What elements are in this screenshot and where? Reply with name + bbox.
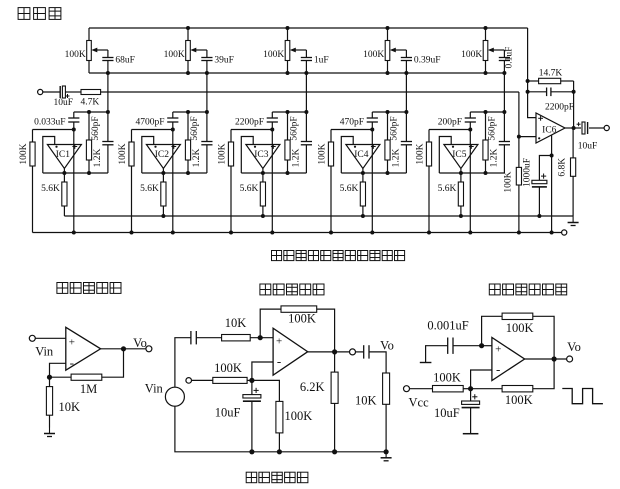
Vin terminal DC amp [29, 335, 35, 341]
svg-text:560pF: 560pF [488, 116, 498, 140]
wire 560pF top stage 2 [206, 112, 208, 142]
wire 0.001uF left [426, 346, 448, 363]
resistor 1.2K stage 2 [185, 140, 190, 160]
wire term to 100K [192, 379, 213, 381]
svg-text:100K: 100K [118, 143, 128, 164]
svg-text:560pF: 560pF [290, 116, 300, 140]
junction dot [286, 171, 290, 175]
svg-text:2200pF: 2200pF [545, 103, 574, 113]
wire stage top node stage 4 [372, 111, 406, 113]
op-amp IC3 [246, 145, 280, 169]
capacitor 560pF stage 5 [499, 142, 510, 145]
junction dot [459, 214, 463, 218]
capacitor 10uF sq gen [462, 394, 480, 407]
junction dot [517, 231, 521, 235]
capacitor 10uF mid [243, 388, 261, 401]
junction dot [270, 231, 274, 235]
svg-text:10uF: 10uF [578, 142, 598, 152]
wire wiper stage 3 [305, 50, 307, 58]
junction dot [270, 128, 274, 132]
wire 560pF bottom stage 1 [107, 145, 109, 173]
junction dot [106, 110, 110, 114]
junction dot [329, 231, 333, 235]
wire feedback2 right [533, 359, 554, 389]
output terminal inv amp [350, 349, 356, 355]
wire 100K to node [247, 379, 252, 381]
wire output node IC3 [241, 172, 306, 174]
capacitor 10uF output [577, 122, 588, 134]
wire node to 100K vert [252, 380, 280, 401]
wire 1.2K bottom stage 4 [387, 160, 389, 173]
junction dot [62, 171, 66, 175]
junction dot [249, 378, 254, 383]
potentiometer 100K stage 4 [385, 28, 390, 73]
junction dot [459, 171, 463, 175]
wire noninverting input / supply line stage 4 [371, 122, 373, 233]
svg-text:560pF: 560pF [91, 116, 101, 140]
Vo terminal DC amp [146, 346, 152, 352]
wiper arrow stage 1 [91, 48, 108, 53]
svg-text:100K: 100K [19, 143, 29, 164]
svg-text:100K: 100K [504, 171, 514, 192]
wire 1M to output [102, 349, 124, 377]
junction dot [484, 110, 488, 114]
wire to output terminal [589, 127, 604, 129]
wire op-amp output IC3 [262, 169, 264, 174]
resistor 5.6K stage 4 [360, 182, 365, 206]
resistor 5.6K stage 2 [161, 182, 166, 206]
ground inv amp [381, 452, 392, 461]
junction dot [484, 171, 488, 175]
stage 1 of tone control [0, 0, 1, 1]
wire output node IC2 [142, 172, 207, 174]
resistor 100K bias stage 1 [30, 142, 35, 166]
wire inverting input inv amp [252, 362, 273, 380]
svg-text:100K: 100K [461, 50, 482, 60]
junction dot [386, 26, 390, 30]
wire 5.6K top stage 4 [362, 173, 364, 182]
junction dot [205, 71, 209, 75]
capacitor 0.001uF [448, 338, 453, 354]
caption text 用于五频率音调控制电路 [271, 250, 404, 260]
square wave generator circuit [0, 0, 1, 1]
junction dot [370, 231, 374, 235]
potentiometer 100K stage 1 [87, 28, 92, 73]
capacitor 0.39uF stage 4 [401, 58, 412, 61]
noninverting input mark IC5 [469, 144, 474, 149]
wire top supply rail [89, 27, 528, 29]
wire 2200pF right [551, 91, 574, 93]
svg-text:10uF: 10uF [215, 406, 241, 420]
junction dot [502, 110, 506, 114]
junction dot [332, 349, 337, 354]
wire noninverting input / supply line stage 2 [172, 122, 174, 233]
svg-text:5.6K: 5.6K [41, 184, 60, 194]
capacitor 4700pF stage 2 [167, 118, 178, 122]
op-amp U-DC [66, 327, 101, 370]
wire cap to rail stage 5 [503, 61, 505, 74]
wire output sq gen [525, 358, 567, 360]
wire 5.6K bottom stage 2 [162, 206, 164, 216]
svg-text:100K: 100K [506, 321, 534, 335]
svg-text:560pF: 560pF [390, 116, 400, 140]
junction dot [161, 171, 165, 175]
resistor 4.7K [81, 90, 101, 95]
svg-text:100K: 100K [263, 50, 284, 60]
svg-text:10K: 10K [225, 316, 247, 330]
wire 1000uF bottom [538, 187, 540, 216]
wire 0.001uF right [453, 345, 482, 347]
junction dot [186, 26, 190, 30]
wire op-amp output IC1 [63, 169, 65, 174]
junction dot [386, 110, 390, 114]
noninverting input mark IC2 [171, 144, 176, 149]
wire 100K to node sq [463, 388, 470, 390]
svg-text:2200pF: 2200pF [235, 118, 264, 128]
wire op-amp output IC4 [362, 169, 364, 174]
resistor 100K feedback top sq [502, 313, 533, 319]
wire wiper down stage 5 [503, 73, 505, 112]
wire 1.2K bottom stage 1 [88, 160, 90, 173]
junction dot [186, 71, 190, 75]
svg-text:1.2K: 1.2K [93, 149, 103, 168]
capacitor 560pF stage 1 [102, 142, 113, 145]
inverting amplifier circuit [0, 0, 1, 1]
svg-text:IC5: IC5 [452, 150, 467, 160]
junction dot [552, 356, 557, 361]
wire cap to rail stage 2 [206, 61, 208, 74]
junction dot [386, 171, 390, 175]
junction dot [404, 71, 408, 75]
wiper arrow stage 5 [488, 48, 505, 53]
wire 100K top stage 2 [131, 130, 133, 143]
wire 10K load down [385, 404, 387, 452]
junction dot [304, 110, 308, 114]
resistor 100K IC6 [516, 167, 521, 185]
wire 5.6K top stage 1 [63, 173, 65, 182]
junction dot [572, 126, 576, 130]
wire IC6 output [565, 127, 581, 129]
inverting input mark IC2 [154, 146, 156, 148]
wire 6.2K top [334, 352, 336, 372]
noninverting input mark IC1 [72, 144, 77, 149]
junction dot [361, 171, 365, 175]
wire bias node stage 2 [132, 129, 173, 131]
capacitor output mid [364, 345, 369, 358]
svg-text:100K: 100K [416, 143, 426, 164]
wire feedback hook IC5 [439, 137, 451, 174]
svg-text:100K: 100K [214, 361, 242, 375]
svg-text:Vin: Vin [35, 345, 54, 359]
svg-text:100K: 100K [285, 409, 313, 423]
op-amp U-SQ [492, 338, 525, 381]
svg-text:4.7K: 4.7K [81, 98, 100, 108]
svg-text:100K: 100K [505, 393, 533, 407]
resistor 100K bias stage 5 [426, 142, 431, 166]
wire input rail down [518, 92, 520, 137]
svg-text:100K: 100K [218, 143, 228, 164]
inverting input mark IC3 [254, 146, 256, 148]
svg-text:5.6K: 5.6K [438, 184, 457, 194]
Vo terminal sq gen [567, 356, 573, 362]
resistor 100K vertical mid [276, 401, 283, 433]
wire feedback1 sq gen [482, 316, 503, 345]
wire output DC amp [101, 348, 146, 350]
svg-text:Vin: Vin [145, 382, 164, 396]
wire stage top node stage 3 [272, 111, 306, 113]
svg-text:IC1: IC1 [56, 150, 71, 160]
wire feedback right vertical [573, 81, 575, 128]
wire inverting input IC6 [519, 136, 536, 138]
wire 100K top stage 3 [230, 130, 232, 143]
Vcc terminal [404, 386, 410, 392]
wire 1.2K top stage 2 [187, 112, 189, 140]
wire 100K bottom stage 1 [32, 166, 34, 233]
capacitor 560pF stage 4 [401, 142, 412, 145]
junction dot [526, 90, 530, 94]
svg-text:Vcc: Vcc [409, 396, 430, 410]
wire 10uF top sq [470, 389, 472, 401]
wire feedback2 sq gen [471, 388, 503, 390]
wire top rail down to feedback node [528, 28, 536, 118]
wire input rail [101, 91, 519, 93]
Vin source [165, 387, 184, 406]
inverting input mark IC4 [354, 146, 356, 148]
junction dot [171, 128, 175, 132]
resistor 1.2K stage 3 [285, 140, 290, 160]
svg-text:39uF: 39uF [214, 55, 234, 65]
wire 1.2K top stage 4 [387, 112, 389, 140]
svg-text:1.2K: 1.2K [490, 149, 500, 168]
wire to output cap [356, 351, 364, 353]
wire 560pF bottom stage 5 [503, 145, 505, 173]
wire 560pF top stage 3 [305, 112, 307, 142]
wire 100K bottom stage 4 [330, 166, 332, 233]
wire 5.6K top stage 5 [460, 173, 462, 182]
svg-text:200pF: 200pF [438, 118, 462, 128]
op-amp IC6 [536, 113, 565, 143]
junction dot [286, 26, 290, 30]
junction dot [404, 110, 408, 114]
svg-text:10uF: 10uF [54, 98, 74, 108]
op-amp IC4 [346, 145, 380, 169]
wire ground bus [64, 215, 573, 217]
junction dot [479, 343, 484, 348]
inverting input mark IC1 [55, 146, 57, 148]
wire feedback up [260, 309, 281, 338]
junction dot [484, 26, 488, 30]
Vin2 terminal mid [186, 378, 192, 384]
svg-text:IC6: IC6 [542, 126, 557, 136]
junction dot [261, 171, 265, 175]
resistor 1.2K stage 4 [385, 140, 390, 160]
svg-text:+: + [495, 344, 501, 356]
junction dot [361, 214, 365, 218]
DC amplifier circuit [0, 0, 1, 1]
resistor 100K feedback mid [281, 306, 317, 312]
wire 1.2K top stage 5 [485, 112, 487, 140]
wiper arrow stage 4 [390, 48, 407, 53]
wire feedback1 right [533, 316, 554, 359]
junction dot [186, 171, 190, 175]
junction dot [427, 231, 431, 235]
wire negative supply bus [33, 232, 562, 234]
noninverting input mark IC3 [271, 144, 276, 149]
capacitor 2200pF stage 3 [267, 118, 278, 122]
wire wiper down stage 3 [305, 73, 307, 112]
wire input cap top stage 5 [469, 112, 471, 118]
svg-text:68uF: 68uF [115, 55, 135, 65]
junction dot [537, 214, 541, 218]
svg-text:-: - [496, 362, 500, 377]
resistor 1.2K stage 1 [86, 140, 91, 160]
wire 10uF down sq [470, 408, 472, 434]
potentiometer 100K stage 3 [285, 28, 290, 73]
svg-text:Vo: Vo [380, 339, 394, 353]
wire 100K bottom stage 3 [230, 166, 232, 233]
svg-text:1uF: 1uF [314, 55, 329, 65]
svg-text:+: + [276, 336, 282, 348]
inverting input mark IC5 [452, 146, 454, 148]
capacitor 39uF stage 2 [201, 58, 212, 61]
resistor 10K load mid [383, 373, 390, 404]
square wave symbol [562, 389, 603, 404]
wire input cap top stage 1 [73, 112, 75, 118]
resistor 100K bias stage 4 [328, 142, 333, 166]
svg-text:5.6K: 5.6K [240, 184, 259, 194]
wire input cap top stage 4 [371, 112, 373, 118]
stage 4 of tone control [0, 0, 1, 1]
junction dot [171, 231, 175, 235]
wire input cap top stage 3 [271, 112, 273, 118]
junction dot [370, 128, 374, 132]
wire wiper stage 2 [206, 50, 208, 58]
negative supply terminal [562, 230, 567, 235]
resistor 100K feedback bottom sq [502, 386, 533, 392]
wire cap to 10K [196, 337, 221, 339]
svg-text:1000uF: 1000uF [523, 158, 533, 187]
wire 100K bottom stage 5 [428, 166, 430, 233]
wire 6.8K top [572, 128, 574, 158]
junction dot [277, 449, 282, 454]
wire + input sq gen [482, 345, 492, 347]
wire stage top node stage 5 [470, 111, 504, 113]
capacitor 68uF stage 1 [102, 58, 113, 61]
junction dot [304, 71, 308, 75]
svg-text:10K: 10K [355, 394, 377, 408]
title text 倒相放大器 [260, 284, 324, 295]
junction dot [161, 214, 165, 218]
wire Vin to + [35, 337, 66, 339]
junction dot [572, 90, 576, 94]
wire 100K vert down [278, 433, 280, 452]
junction dot [484, 71, 488, 75]
capacitor 470pF stage 4 [367, 118, 378, 122]
junction dot [130, 231, 134, 235]
svg-text:10uF: 10uF [434, 406, 460, 420]
junction dot [468, 386, 473, 391]
junction dot [384, 449, 389, 454]
svg-text:1.2K: 1.2K [392, 149, 402, 168]
wire cap to 10K load [369, 352, 386, 373]
svg-text:1.2K: 1.2K [192, 149, 202, 168]
junction dot [186, 110, 190, 114]
wire 100K IC6 bottom [518, 185, 520, 233]
capacitor 560pF stage 3 [301, 142, 312, 145]
junction dot [286, 71, 290, 75]
wire 560pF top stage 4 [405, 112, 407, 142]
svg-text:IC2: IC2 [155, 150, 170, 160]
wire to 4.7K [65, 91, 81, 93]
svg-text:100K: 100K [65, 50, 86, 60]
resistor 100K bias stage 3 [228, 142, 233, 166]
wire 10uF top [251, 380, 253, 394]
wire 560pF bottom stage 3 [305, 145, 307, 173]
wire 6.8K bottom [572, 176, 574, 216]
wire 1.2K top stage 1 [88, 112, 90, 140]
wire bias node stage 1 [33, 129, 74, 131]
wire 5.6K bottom stage 4 [362, 206, 364, 216]
svg-text:Vo: Vo [567, 340, 581, 354]
svg-text:-: - [70, 355, 74, 370]
resistor 100K bias stage 2 [129, 142, 134, 166]
wire op-amp output IC2 [162, 169, 164, 174]
op-amp IC5 [444, 145, 478, 169]
capacitor 560pF stage 2 [201, 142, 212, 145]
svg-text:+: + [69, 337, 75, 349]
wire wiper stage 4 [405, 50, 407, 58]
wire output node IC1 [43, 172, 108, 174]
wire wiper stage 5 [503, 50, 505, 58]
wire output node IC4 [341, 172, 406, 174]
svg-text:10K: 10K [59, 400, 81, 414]
wire input [43, 91, 61, 93]
wire 10K to ground [49, 415, 51, 427]
svg-text:0.39uF: 0.39uF [414, 55, 441, 65]
wire output node IC5 [439, 172, 504, 174]
wire bias node stage 4 [331, 129, 372, 131]
junction dot [205, 110, 209, 114]
junction dot [261, 214, 265, 218]
wire op-amp output IC5 [460, 169, 462, 174]
capacitor 0.033uF stage 1 [68, 118, 79, 122]
wire 100K bottom stage 2 [131, 166, 133, 233]
wire 1000uF top [539, 156, 551, 181]
junction dot [72, 231, 76, 235]
ground DC amp [44, 428, 55, 437]
svg-text:100K: 100K [363, 50, 384, 60]
junction dot [72, 128, 76, 132]
wire 5.6K top stage 3 [262, 173, 264, 182]
wire bias node stage 3 [231, 129, 272, 131]
wire 100K top stage 5 [428, 130, 430, 143]
junction dot [550, 231, 554, 235]
svg-text:470pF: 470pF [340, 118, 364, 128]
svg-text:0.1uF: 0.1uF [504, 47, 514, 69]
resistor 5.6K stage 1 [62, 182, 67, 206]
resistor 14.7K [528, 78, 574, 83]
wire noninverting input / supply line stage 5 [469, 122, 471, 233]
wire bottom rail mid [175, 406, 386, 452]
wire pot-bottom rail [89, 72, 504, 74]
svg-text:100K: 100K [164, 50, 185, 60]
resistor 5.6K stage 5 [458, 182, 463, 206]
IC6 output amplifier section [0, 0, 1, 1]
svg-text:5.6K: 5.6K [140, 184, 159, 194]
wire input cap top stage 2 [172, 112, 174, 118]
svg-text:IC4: IC4 [354, 150, 369, 160]
svg-text:14.7K: 14.7K [539, 69, 563, 79]
